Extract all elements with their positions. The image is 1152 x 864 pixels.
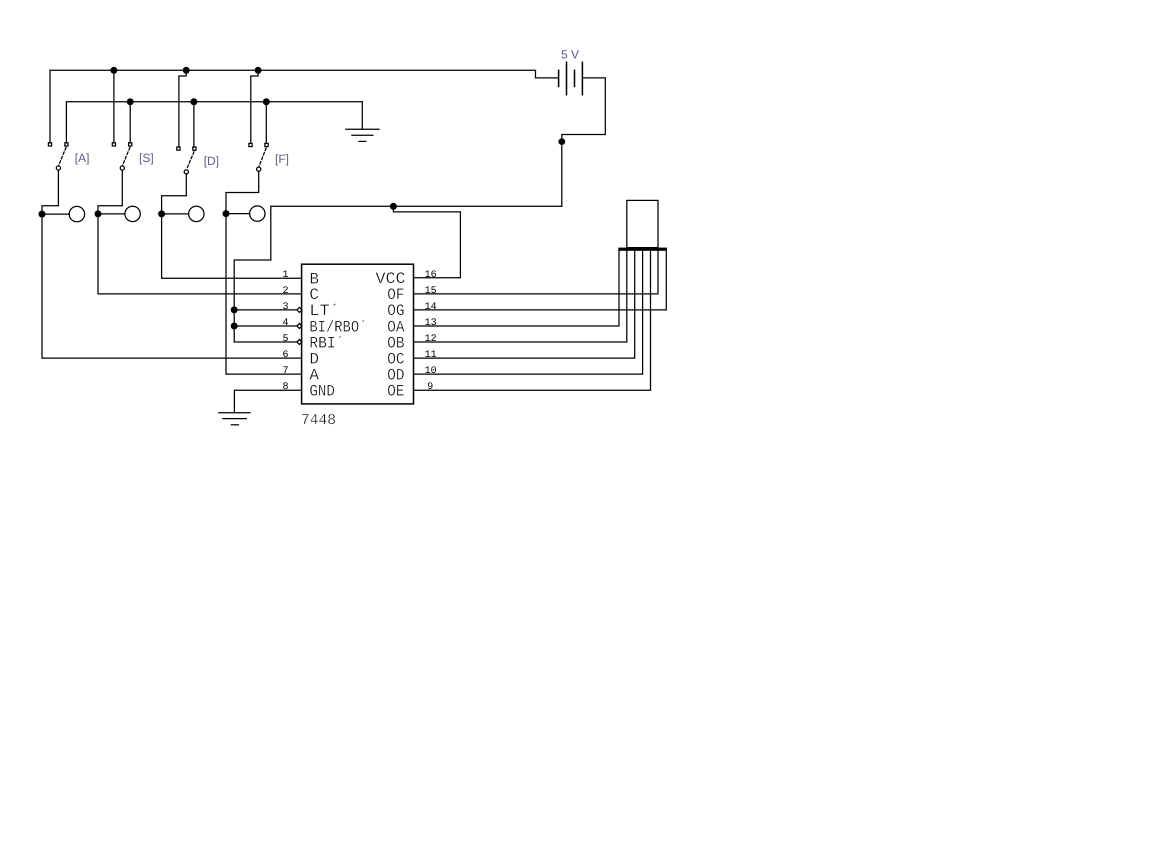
switch J2 throw contact circle [125,206,140,221]
svg-text:7448: 7448 [301,412,336,429]
pin 3 active-low diamond [297,307,302,312]
svg-text:10: 10 [425,366,437,377]
switch J1 key=A terminal squares [48,143,68,146]
wire rail2 drop to switch J4 right terminal [265,102,267,144]
wire J2 common to throw contact [98,213,125,215]
svg-text:GND: GND [309,383,335,401]
junction rail1 / J2 [110,67,117,74]
svg-text:2: 2 [282,286,288,297]
wire branch to pin 4 BI/RBO' [234,325,297,327]
seven-segment display U2 body [627,200,658,247]
switch J3 lever (dashed) [187,152,194,170]
seven-segment display U2 base bar [618,248,667,251]
switch J4 pivot [257,167,261,171]
wire switch J4 common down to IC pin 7 (A) [226,214,302,375]
switch J3 pivot [184,170,188,174]
junction switch J1 common [39,211,46,218]
wire IC pin 8 GND to ground [234,390,301,413]
wire VCC distribution to pins 5,4,3 (LT', BI/RBO', RBI') [234,206,562,342]
wire switch J1 common down to IC pin 6 (D) [42,214,302,358]
svg-text:1: 1 [282,270,288,281]
junction switch J2 common [95,210,102,217]
switch J4 throw contact circle [250,206,265,221]
switch J3 key=D terminal squares [177,147,196,150]
wire rail1 drop to switch J4 left terminal [251,70,258,143]
wire J3 pole to common junction [162,174,187,210]
junction pin3 branch [231,306,238,313]
wire battery + terminal down to VCC node [562,78,606,206]
op-amp U1 7448 IC body [302,264,414,404]
wire switch J3 common down to IC pin 1 (B) [162,214,302,278]
svg-text:[D]: [D] [204,154,219,168]
switch J1 throw contact circle [69,206,84,221]
battery V1 5V plates [559,62,583,94]
switch J2 lever (dashed) [123,148,130,166]
wire branch to pin 3 LT' [234,309,297,311]
svg-text:3: 3 [282,302,288,313]
svg-text:14: 14 [425,302,437,313]
junction VCC wire / pin16 branch [390,203,397,210]
svg-text:9: 9 [427,382,433,393]
svg-text:5 V: 5 V [561,48,579,62]
switch J4 lever (dashed) [259,148,266,167]
ground symbol bottom (IC GND) [219,413,250,425]
wire VCC rail top (rail1) from switch J1 left terminal to battery + [50,70,558,143]
svg-text:8: 8 [282,382,288,393]
wire IC pin 14 OG to display pin 7 [414,251,667,310]
switch J4 key=F terminal squares [249,143,268,146]
junction rail2 / J4 [263,98,270,105]
switch J3 throw contact circle [189,206,204,221]
pin 5 active-low diamond [297,340,302,345]
IC U1 pin name labels [309,270,405,400]
junction rail2 / J2 [127,98,134,105]
wire IC pin 9 OE to display pin 5 [414,251,651,390]
wire J2 pole to common junction [98,170,122,210]
wire IC pin 10 OD to display pin 4 [414,251,643,374]
svg-text:16: 16 [425,270,437,281]
ground symbol top (net 0) [346,129,379,141]
svg-text:7: 7 [282,366,288,377]
wire IC pin 13 OA to display pin 1 [414,251,620,326]
wire J1 pole to common junction [42,170,58,210]
wire IC pin 12 OB to display pin 2 [414,251,627,342]
svg-text:11: 11 [425,350,437,361]
switch J2 key=S terminal squares [112,143,132,146]
junction battery output [558,138,565,145]
wire J1 common to throw contact [42,213,69,215]
svg-text:15: 15 [425,286,437,297]
wire IC pin 11 OC to display pin 3 [414,251,635,358]
IC U1 pin numbers [282,270,288,393]
svg-text:[F]: [F] [275,152,289,166]
junction switch J3 common [158,210,165,217]
pin 4 active-low diamond [297,324,302,329]
switch J1 pivot [56,166,60,170]
svg-text:[S]: [S] [139,151,154,165]
switch J2 pivot [120,166,124,170]
junction rail2 / J3 [190,98,197,105]
junction pin4 branch [231,323,238,330]
junction rail1 / J3 [183,67,190,74]
wire J3 common to throw contact [162,213,189,215]
svg-text:[A]: [A] [75,151,90,165]
wire rail2 drop to switch J3 right terminal [193,102,195,147]
svg-text:OE: OE [387,383,404,401]
wire rail2 drop to switch J2 right terminal [129,102,131,143]
wire J4 pole to common junction [226,171,259,210]
junction rail1 / J4 [255,67,262,74]
wire IC pin 15 OF to display pin 6 [414,251,659,294]
wire VCC to IC pin 16 [393,206,460,277]
svg-text:6: 6 [282,350,288,361]
wire J4 common to throw contact [226,213,250,215]
wire switch J2 common down to IC pin 2 (C) [98,214,302,294]
junction switch J4 common [223,210,230,217]
svg-text:12: 12 [425,334,437,345]
wire GND rail (rail2) from switch J1 right terminal to ground symbol [66,102,362,143]
wire rail1 drop to switch J2 left terminal [113,70,115,143]
switch J1 lever (dashed) [59,148,66,166]
svg-text:5: 5 [282,334,288,345]
svg-text:4: 4 [282,318,288,329]
svg-text:13: 13 [425,318,437,329]
wire rail1 drop to switch J3 left terminal [179,70,186,147]
